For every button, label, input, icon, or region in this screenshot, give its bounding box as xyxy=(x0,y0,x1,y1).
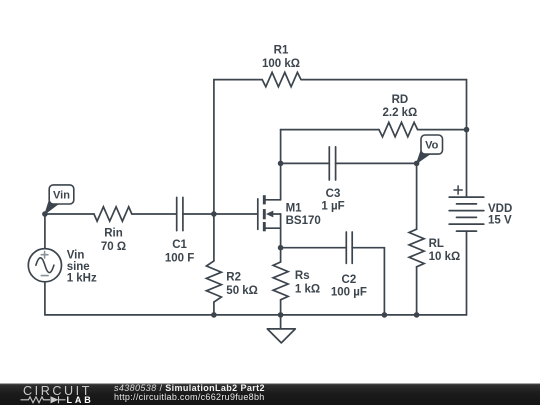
svg-text:http://circuitlab.com/c662ru9f: http://circuitlab.com/c662ru9fue8bh xyxy=(114,392,265,402)
svg-text:R2: R2 xyxy=(226,272,241,284)
svg-text:1 kHz: 1 kHz xyxy=(67,273,97,285)
svg-text:RL: RL xyxy=(429,238,444,250)
svg-text:1 kΩ: 1 kΩ xyxy=(295,284,320,296)
svg-text:R1: R1 xyxy=(274,44,289,56)
svg-text:C2: C2 xyxy=(342,274,357,286)
svg-text:2.2 kΩ: 2.2 kΩ xyxy=(382,107,417,119)
svg-text:100 µF: 100 µF xyxy=(331,287,367,299)
svg-text:15 V: 15 V xyxy=(488,214,512,226)
svg-text:Rin: Rin xyxy=(104,228,123,240)
svg-text:100 F: 100 F xyxy=(165,252,194,264)
svg-text:100 kΩ: 100 kΩ xyxy=(262,58,300,70)
svg-text:70 Ω: 70 Ω xyxy=(101,241,126,253)
svg-text:RD: RD xyxy=(392,94,409,106)
svg-text:50 kΩ: 50 kΩ xyxy=(226,285,258,297)
svg-text:C1: C1 xyxy=(172,239,187,251)
svg-text:C3: C3 xyxy=(326,188,341,200)
svg-text:VDD: VDD xyxy=(488,203,512,215)
svg-text:Rs: Rs xyxy=(295,270,310,282)
svg-text:M1: M1 xyxy=(286,202,303,214)
svg-text:sine: sine xyxy=(67,261,90,273)
svg-text:1 µF: 1 µF xyxy=(321,201,344,213)
svg-text:10 kΩ: 10 kΩ xyxy=(429,251,461,263)
svg-text:LAB: LAB xyxy=(67,395,92,405)
svg-text:Vin: Vin xyxy=(67,250,85,262)
svg-text:Vin: Vin xyxy=(53,190,70,202)
svg-text:BS170: BS170 xyxy=(286,215,321,227)
svg-text:Vo: Vo xyxy=(425,140,439,152)
